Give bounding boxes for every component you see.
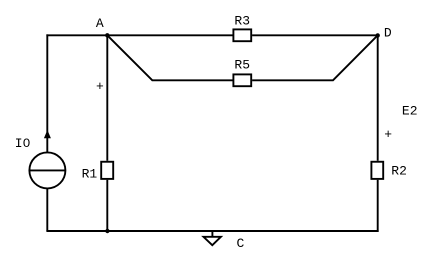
svg-text:D: D (384, 26, 392, 41)
svg-text:C: C (236, 236, 244, 251)
svg-text:A: A (96, 16, 104, 31)
svg-text:E2: E2 (402, 104, 418, 119)
svg-text:R3: R3 (234, 14, 250, 29)
svg-text:R1: R1 (82, 167, 98, 182)
svg-text:+: + (96, 79, 104, 94)
svg-text:R2: R2 (391, 164, 407, 179)
svg-text:I0: I0 (15, 136, 31, 151)
svg-text:R5: R5 (234, 58, 250, 73)
svg-text:+: + (384, 127, 392, 142)
